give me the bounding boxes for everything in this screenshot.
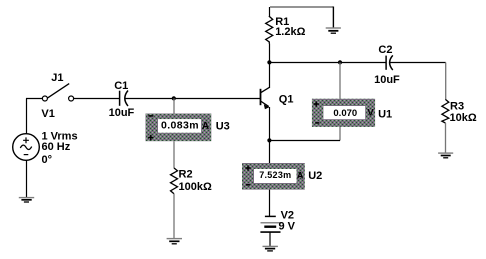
wire node to U1 top (339, 63, 341, 99)
wire collector node to R1 (269, 44, 271, 63)
capacitor C2 (386, 55, 393, 70)
ground under R3 (438, 153, 453, 158)
wire top horizontal to ground (270, 6, 333, 8)
ground under V1 (19, 198, 34, 202)
wire C2 to R3 corner (390, 62, 446, 64)
voltmeter U1 (312, 99, 375, 127)
wire R1 top stub (269, 7, 271, 16)
ground top right (326, 28, 341, 33)
resistor R2 (171, 168, 178, 194)
wire U1 bottom down (339, 127, 341, 141)
svg-text:60 Hz: 60 Hz (42, 141, 71, 153)
wire battery to ground (269, 233, 271, 247)
svg-text:100kΩ: 100kΩ (179, 181, 212, 193)
wire node to U3 top (173, 99, 175, 114)
ammeter U2 (242, 163, 305, 190)
wire U1 to emitter node (270, 140, 341, 142)
wire ground drop vertical (332, 7, 334, 28)
switch J1 (42, 84, 73, 101)
svg-text:Q1: Q1 (279, 94, 294, 106)
wire V1 bottom vertical (26, 160, 28, 197)
wire Q1 collector up (269, 63, 271, 89)
transistor Q1 (261, 87, 270, 109)
svg-text:9 V: 9 V (279, 221, 296, 233)
capacitor C1 (120, 91, 128, 107)
svg-text:J1: J1 (51, 72, 63, 84)
svg-text:V1: V1 (41, 108, 54, 120)
svg-text:0°: 0° (42, 154, 53, 166)
node emitter junction (267, 138, 271, 142)
wire V1 top vertical (26, 99, 28, 134)
svg-text:10uF: 10uF (109, 107, 135, 119)
ground under R2 (167, 239, 182, 244)
svg-text:7.523m: 7.523m (259, 170, 291, 180)
svg-text:U1: U1 (378, 109, 392, 121)
wire input horizontal V1 to switch J1 (26, 98, 42, 100)
node output junction to U1 (338, 60, 342, 64)
source V1 (13, 134, 40, 161)
svg-text:A: A (297, 170, 304, 180)
wire collector node to C2 (270, 62, 386, 64)
svg-text:R2: R2 (179, 169, 193, 181)
node collector junction (267, 60, 271, 64)
battery V2 (260, 216, 280, 232)
svg-text:0.070: 0.070 (333, 108, 357, 119)
wire down to R3 (445, 63, 447, 100)
wire R2 to ground (173, 194, 175, 238)
svg-text:C2: C2 (378, 44, 392, 56)
svg-text:R3: R3 (450, 101, 464, 113)
resistor R1 (266, 16, 273, 44)
ammeter U3 (146, 114, 212, 142)
wire C1 to Q1 base (125, 98, 260, 100)
wire switch J1 to C1 (74, 98, 119, 100)
ground under V2 (263, 246, 278, 251)
node A input junction (172, 96, 176, 100)
svg-text:V: V (367, 108, 374, 119)
svg-text:10kΩ: 10kΩ (450, 112, 477, 124)
svg-text:1.2kΩ: 1.2kΩ (275, 26, 305, 38)
svg-text:U2: U2 (308, 170, 322, 182)
svg-text:C1: C1 (114, 80, 128, 92)
svg-text:10uF: 10uF (374, 74, 400, 86)
svg-text:0.083m: 0.083m (161, 120, 199, 132)
wire U3 bottom to R2 (173, 141, 175, 168)
resistor R3 (442, 99, 449, 123)
wire U2 bottom to battery (269, 190, 271, 216)
wire Q1 emitter down (269, 107, 271, 163)
svg-text:A: A (202, 121, 209, 132)
svg-text:U3: U3 (216, 121, 230, 133)
wire R3 to ground (445, 123, 447, 153)
